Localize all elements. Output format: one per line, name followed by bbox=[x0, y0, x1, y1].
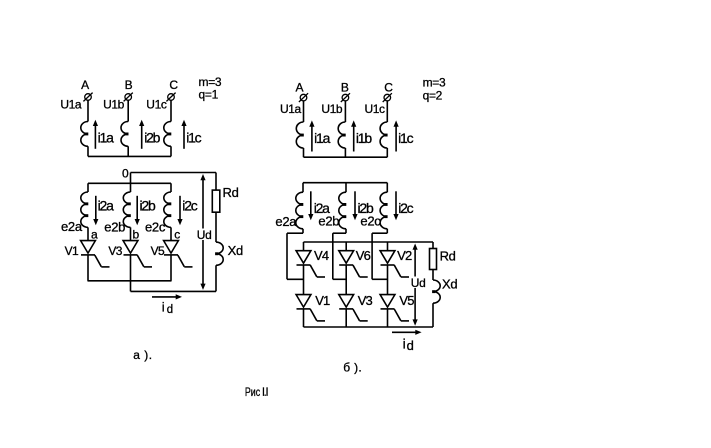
svg-text:e2c: e2c bbox=[360, 214, 381, 229]
svg-text:V2: V2 bbox=[397, 248, 412, 263]
svg-text:i2c: i2c bbox=[398, 200, 413, 216]
svg-text:U1a: U1a bbox=[280, 102, 302, 116]
svg-text:C: C bbox=[384, 80, 393, 94]
svg-text:i1a: i1a bbox=[98, 129, 114, 145]
svg-text:b: b bbox=[133, 228, 140, 242]
svg-text:i1a: i1a bbox=[314, 130, 330, 146]
svg-text:U1a: U1a bbox=[60, 98, 82, 112]
svg-text:i1b: i1b bbox=[356, 130, 372, 146]
svg-text:V5: V5 bbox=[151, 244, 165, 258]
svg-text:Xd: Xd bbox=[442, 277, 457, 292]
svg-text:i: i bbox=[162, 299, 165, 314]
svg-text:B: B bbox=[125, 78, 133, 92]
svg-text:V1: V1 bbox=[65, 244, 79, 258]
svg-text:Рис: Рис bbox=[245, 385, 260, 399]
svg-text:Ud: Ud bbox=[411, 276, 426, 290]
svg-text:U1b: U1b bbox=[103, 98, 125, 112]
svg-text:i2a: i2a bbox=[98, 198, 114, 214]
svg-text:Ud: Ud bbox=[197, 228, 212, 242]
svg-text:q=1: q=1 bbox=[199, 87, 219, 101]
svg-text:e2b: e2b bbox=[104, 220, 125, 235]
svg-text:i2b: i2b bbox=[144, 129, 160, 145]
svg-text:U1c: U1c bbox=[146, 98, 167, 112]
svg-text:e2a: e2a bbox=[275, 214, 297, 229]
svg-text:C: C bbox=[169, 78, 178, 92]
svg-text:V5: V5 bbox=[399, 293, 414, 308]
svg-text:B: B bbox=[341, 80, 349, 94]
svg-text:q=2: q=2 bbox=[423, 88, 443, 102]
svg-text:Xd: Xd bbox=[228, 243, 243, 258]
svg-text:c: c bbox=[174, 228, 180, 242]
svg-text:U1c: U1c bbox=[365, 102, 386, 116]
svg-text:U1b: U1b bbox=[321, 102, 343, 116]
svg-text:i2c: i2c bbox=[182, 198, 197, 214]
svg-text:i2b: i2b bbox=[140, 198, 156, 214]
svg-text:Rd: Rd bbox=[440, 248, 456, 263]
svg-text:V3: V3 bbox=[108, 244, 122, 258]
svg-text:d: d bbox=[167, 304, 173, 316]
svg-text:e2a: e2a bbox=[61, 219, 83, 234]
svg-text:V4: V4 bbox=[314, 248, 329, 263]
svg-text:а ).: а ). bbox=[133, 348, 152, 362]
svg-text:i: i bbox=[403, 336, 406, 352]
svg-text:a: a bbox=[91, 228, 98, 242]
svg-text:V6: V6 bbox=[356, 248, 371, 263]
svg-text:d: d bbox=[407, 338, 414, 353]
svg-text:б ).: б ). bbox=[343, 360, 362, 374]
svg-text:0: 0 bbox=[122, 166, 129, 180]
svg-text:A: A bbox=[81, 78, 89, 92]
svg-text:A: A bbox=[295, 80, 303, 94]
svg-text:i1c: i1c bbox=[186, 129, 201, 145]
svg-text:V1: V1 bbox=[315, 293, 330, 308]
svg-text:e2b: e2b bbox=[318, 214, 339, 229]
svg-text:Rd: Rd bbox=[223, 185, 239, 200]
svg-text:i1c: i1c bbox=[398, 130, 413, 146]
svg-text:V3: V3 bbox=[358, 293, 373, 308]
svg-text:e2c: e2c bbox=[145, 220, 166, 235]
